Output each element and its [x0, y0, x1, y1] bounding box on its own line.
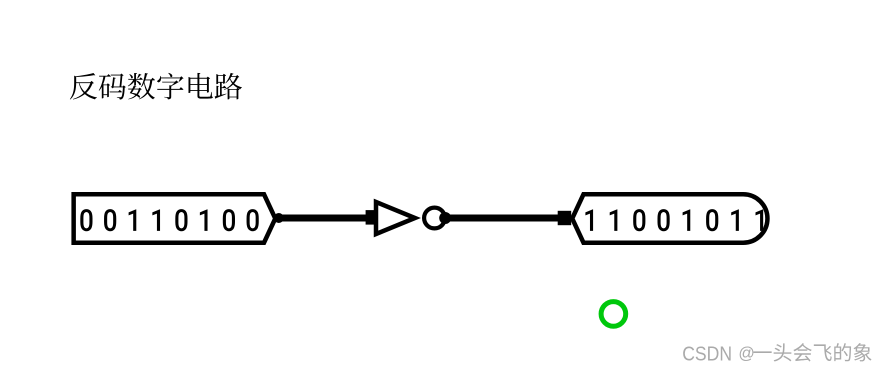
watermark char 飞 [814, 344, 832, 361]
inverter U1 triangle [376, 202, 415, 234]
svg-text:@: @ [738, 345, 754, 363]
title char 数 [128, 73, 155, 99]
title char 路 [215, 73, 242, 100]
input tag value 00110100 [80, 209, 258, 231]
inverter U1 input pin square [366, 210, 379, 225]
inverter U1 bubble [424, 208, 445, 229]
title char 码 [99, 73, 126, 99]
wire input-tag to inverter [277, 215, 372, 222]
watermark char 象 [854, 343, 872, 361]
junction dot at inverter output [439, 212, 451, 224]
input tag IN1 body [74, 194, 276, 243]
title 反码数字电路 [70, 73, 242, 100]
title char 电 [188, 73, 212, 99]
watermark char 的 [834, 343, 851, 361]
output tag value 11001011 [585, 209, 763, 231]
watermark CSDN @ [682, 342, 732, 364]
wire inverter to output tag [448, 215, 563, 222]
watermark char 一 [753, 351, 771, 353]
watermark char 会 [793, 343, 811, 361]
title char 反 [70, 73, 97, 99]
svg-text:CSDN: CSDN [682, 342, 732, 364]
watermark char 头 [774, 343, 792, 361]
output tag input pin square [558, 211, 572, 225]
junction dot at input tag tip [274, 213, 284, 223]
green indicator circle [601, 302, 626, 327]
output tag body [572, 194, 767, 243]
watermark 一头会飞的象 [753, 343, 871, 361]
title char 字 [157, 73, 183, 100]
